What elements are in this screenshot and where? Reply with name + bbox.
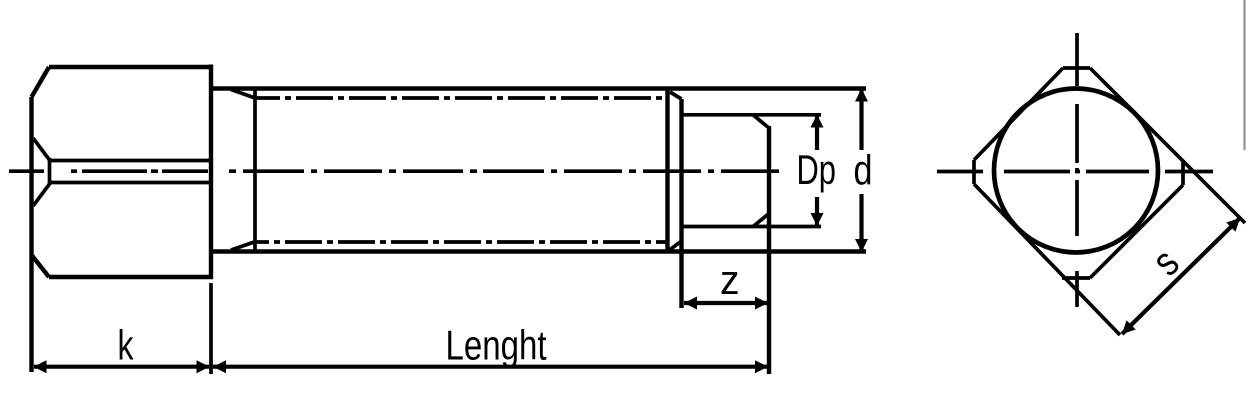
svg-text:Lenght: Lenght (446, 321, 547, 368)
svg-text:d: d (854, 147, 873, 194)
svg-text:z: z (720, 256, 740, 303)
svg-text:Dp: Dp (797, 146, 837, 193)
svg-text:k: k (118, 322, 134, 369)
